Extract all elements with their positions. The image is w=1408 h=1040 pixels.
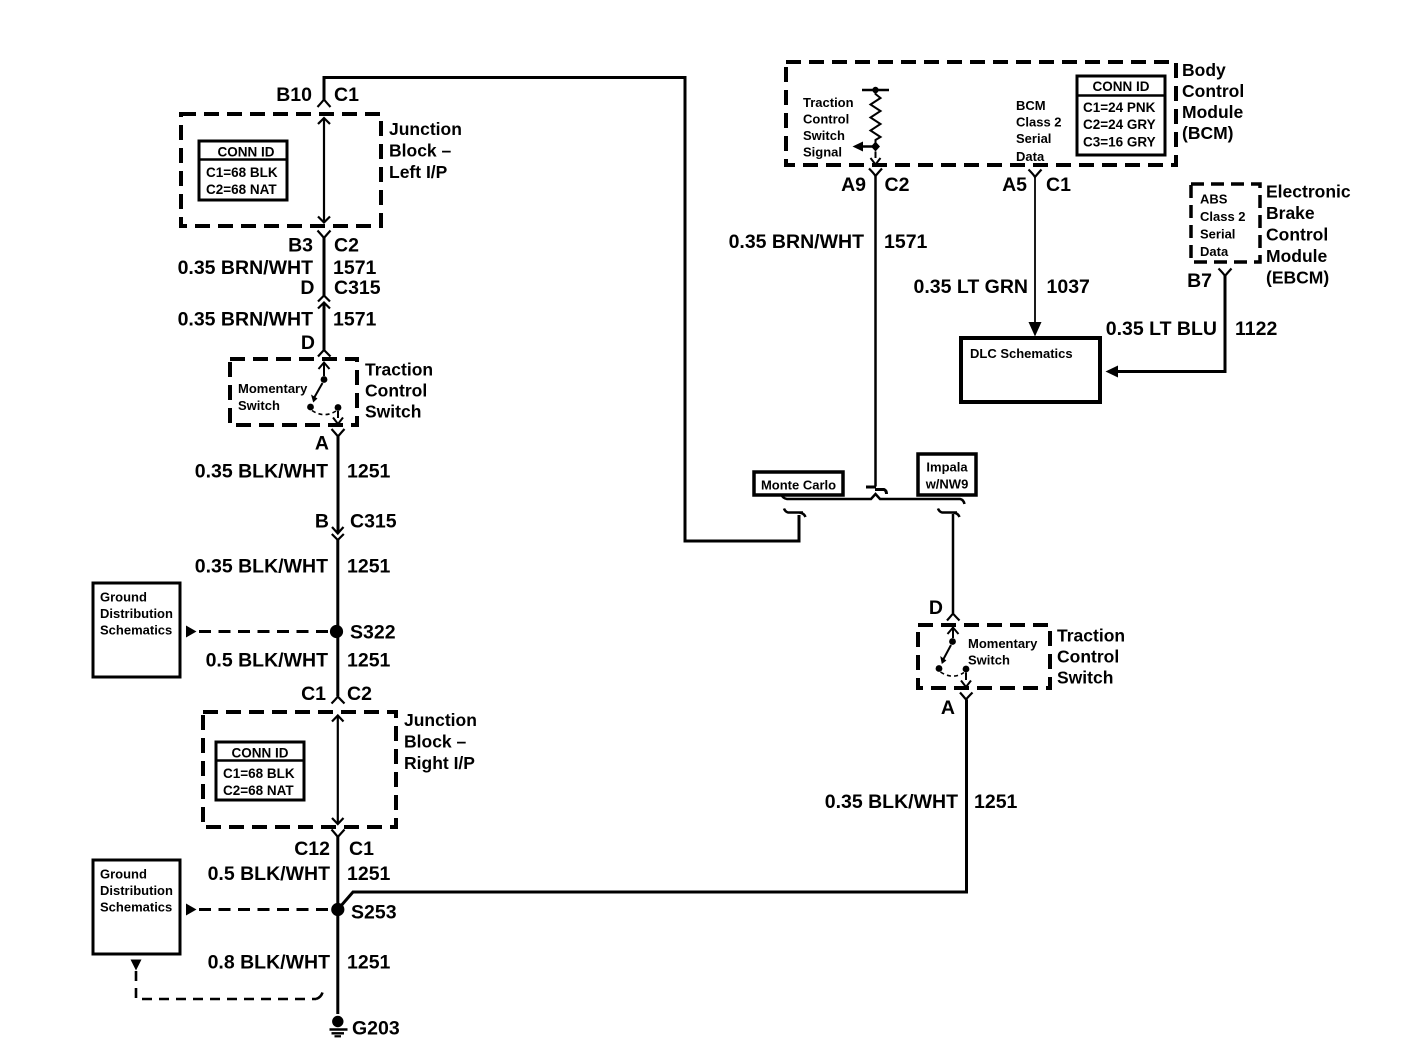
arrow down to BCM edge — [871, 152, 881, 165]
ABS class 2 serial data box — [1191, 184, 1260, 262]
switch lever right — [944, 645, 952, 659]
wire top-left loop from C1 to Monte Carlo branch — [324, 78, 799, 542]
svg-text:1571: 1571 — [884, 231, 928, 253]
splice S253 — [331, 903, 344, 916]
connector C1 fork at junction block right — [332, 697, 345, 704]
CONN ID table BCM — [1077, 76, 1165, 155]
svg-text:C315: C315 — [350, 511, 397, 533]
arrowhead down at bottom inside junction block left — [318, 217, 330, 223]
DLC schematics box — [961, 338, 1100, 402]
svg-text:C2: C2 — [334, 235, 359, 257]
switch pivot dot right — [936, 665, 943, 672]
connector B3 fork — [318, 231, 331, 239]
connector C315 chevron down — [332, 534, 344, 540]
connector A5 fork — [1029, 170, 1042, 178]
svg-text:C2=24 GRY: C2=24 GRY — [1083, 117, 1156, 132]
switch contact dot top left — [321, 376, 328, 383]
svg-text:0.35 BLK/WHT: 0.35 BLK/WHT — [195, 556, 328, 578]
svg-text:Switch: Switch — [803, 128, 845, 143]
svg-text:0.35 BLK/WHT: 0.35 BLK/WHT — [825, 791, 958, 813]
svg-text:C1=68 BLK: C1=68 BLK — [223, 766, 295, 781]
wire inside junction block right — [337, 716, 339, 825]
svg-text:1251: 1251 — [347, 461, 391, 483]
switch pivot dot left — [307, 404, 314, 411]
wire inside junction block left — [323, 118, 325, 223]
svg-text:Control: Control — [1182, 81, 1244, 101]
svg-text:CONN ID: CONN ID — [232, 746, 289, 761]
svg-text:Traction: Traction — [1057, 626, 1125, 646]
svg-text:C1=68 BLK: C1=68 BLK — [206, 165, 278, 180]
svg-text:0.35 BRN/WHT: 0.35 BRN/WHT — [729, 231, 865, 253]
svg-text:C12: C12 — [294, 838, 330, 860]
wire S253 branch to right switch — [338, 700, 967, 910]
svg-text:Brake: Brake — [1266, 203, 1315, 223]
connector D fork right switch — [947, 614, 960, 621]
svg-text:1571: 1571 — [333, 257, 377, 279]
svg-text:S322: S322 — [350, 622, 396, 644]
switch momentary arc right — [941, 672, 965, 676]
svg-text:Distribution: Distribution — [100, 883, 173, 898]
svg-text:Block –: Block – — [404, 732, 467, 752]
svg-text:C1: C1 — [1046, 174, 1071, 196]
switch output arrow right — [961, 673, 971, 688]
connector C12 fork — [332, 830, 345, 838]
svg-text:DLC Schematics: DLC Schematics — [970, 346, 1073, 361]
svg-text:C1: C1 — [334, 84, 359, 106]
svg-text:A: A — [315, 433, 329, 455]
svg-text:0.8 BLK/WHT: 0.8 BLK/WHT — [208, 952, 331, 974]
dashed route ground box 2 to G203 — [136, 971, 323, 999]
svg-text:Class 2: Class 2 — [1016, 115, 1062, 130]
connector B7 fork — [1219, 269, 1232, 277]
svg-text:C2=68 NAT: C2=68 NAT — [223, 783, 294, 798]
svg-text:Control: Control — [365, 381, 427, 401]
arrow below ground box 2 — [131, 960, 142, 971]
connector A fork below right switch — [960, 693, 973, 700]
svg-text:0.5 BLK/WHT: 0.5 BLK/WHT — [208, 863, 331, 885]
svg-text:C315: C315 — [334, 277, 381, 299]
svg-text:(BCM): (BCM) — [1182, 123, 1234, 143]
svg-text:D: D — [929, 597, 943, 619]
svg-text:Right I/P: Right I/P — [404, 753, 475, 773]
svg-text:Momentary: Momentary — [968, 636, 1038, 651]
svg-text:A5: A5 — [1002, 174, 1027, 196]
connector A fork below switch left — [332, 429, 345, 437]
ground G203 symbol — [330, 1016, 348, 1037]
svg-text:Junction: Junction — [404, 710, 477, 730]
wire Impala branch down to switch — [952, 514, 955, 613]
svg-text:Schematics: Schematics — [100, 900, 172, 915]
switch lever left — [314, 383, 323, 398]
connector arrowhead below box top right I/P — [332, 716, 344, 722]
svg-text:Block –: Block – — [389, 141, 452, 161]
CONN ID table left junction block — [199, 141, 287, 200]
wire A5 to DLC schematics — [1034, 177, 1036, 324]
svg-text:Switch: Switch — [1057, 668, 1113, 688]
switch symbol left: input arrow — [319, 363, 330, 377]
svg-text:0.35 BRN/WHT: 0.35 BRN/WHT — [178, 309, 314, 331]
svg-text:A9: A9 — [841, 174, 866, 196]
options split brace — [781, 494, 965, 504]
svg-text:C1: C1 — [301, 683, 326, 705]
svg-text:1122: 1122 — [1235, 318, 1277, 340]
svg-text:0.35 BRN/WHT: 0.35 BRN/WHT — [178, 257, 314, 279]
Impala w/NW9 box — [918, 454, 976, 495]
arrowhead down at bottom inside junction block right — [332, 818, 344, 824]
connector C315 arrowhead down — [332, 527, 344, 534]
svg-text:Data: Data — [1200, 244, 1229, 259]
svg-text:Ground: Ground — [100, 590, 147, 605]
svg-text:S253: S253 — [351, 902, 397, 924]
arrow from ground box 2 — [186, 904, 197, 916]
wire C315 to junction block right — [336, 540, 339, 696]
svg-text:(EBCM): (EBCM) — [1266, 268, 1329, 288]
svg-text:Momentary: Momentary — [238, 381, 308, 396]
connector B10 fork — [318, 100, 331, 108]
svg-text:Control: Control — [1266, 225, 1328, 245]
ground distribution schematics box 2 — [93, 860, 180, 954]
svg-text:C1: C1 — [349, 838, 374, 860]
Impala branch hook — [938, 509, 960, 518]
svg-text:1571: 1571 — [333, 309, 377, 331]
svg-text:Body: Body — [1182, 60, 1226, 80]
svg-text:Serial: Serial — [1016, 131, 1051, 146]
svg-text:Control: Control — [803, 112, 849, 127]
wire A9 down to options split — [874, 176, 877, 487]
svg-text:C3=16 GRY: C3=16 GRY — [1083, 135, 1156, 150]
svg-text:Serial: Serial — [1200, 227, 1235, 242]
switch output dot right — [963, 666, 970, 673]
svg-text:G203: G203 — [352, 1018, 400, 1040]
svg-text:Left I/P: Left I/P — [389, 162, 448, 182]
svg-text:0.35 BLK/WHT: 0.35 BLK/WHT — [195, 461, 328, 483]
wire B7 to DLC schematics — [1118, 276, 1225, 372]
wire C315 to traction control switch — [323, 303, 326, 351]
svg-text:Monte Carlo: Monte Carlo — [761, 478, 836, 493]
svg-text:D: D — [300, 277, 314, 299]
switch momentary arc left — [312, 411, 336, 415]
svg-text:1251: 1251 — [347, 952, 391, 974]
svg-text:C2: C2 — [885, 174, 910, 196]
switch lever arrowhead right — [940, 656, 946, 664]
svg-text:Signal: Signal — [803, 145, 842, 160]
svg-text:1251: 1251 — [347, 863, 391, 885]
svg-text:0.35 LT GRN: 0.35 LT GRN — [914, 276, 1029, 298]
svg-text:1037: 1037 — [1047, 276, 1090, 298]
svg-text:C1=24 PNK: C1=24 PNK — [1083, 100, 1156, 115]
svg-text:Data: Data — [1016, 149, 1045, 164]
svg-text:Distribution: Distribution — [100, 606, 173, 621]
svg-text:B3: B3 — [288, 235, 313, 257]
switch contact dot top right — [949, 638, 956, 645]
connector A9 fork — [869, 169, 882, 177]
junction block left I/P box — [181, 114, 381, 226]
arrowhead into DLC right — [1106, 366, 1119, 378]
svg-text:Ground: Ground — [100, 867, 147, 882]
svg-text:1251: 1251 — [347, 556, 391, 578]
svg-text:ABS: ABS — [1200, 192, 1228, 207]
svg-text:1251: 1251 — [347, 650, 391, 672]
connector C315 chevron up — [318, 296, 330, 302]
junction block right I/P box — [203, 712, 396, 827]
splice S322 — [330, 625, 343, 638]
svg-text:Electronic: Electronic — [1266, 182, 1351, 202]
svg-text:0.35 LT BLU: 0.35 LT BLU — [1106, 318, 1217, 340]
arrow from ground box 1 — [186, 626, 197, 638]
traction control switch right box — [918, 625, 1050, 688]
svg-text:Switch: Switch — [365, 402, 421, 422]
svg-text:B: B — [315, 511, 329, 533]
svg-text:Schematics: Schematics — [100, 623, 172, 638]
svg-text:C2=68 NAT: C2=68 NAT — [206, 182, 277, 197]
signal arrow left — [863, 145, 876, 148]
svg-text:Traction: Traction — [803, 95, 854, 110]
svg-text:Impala: Impala — [926, 460, 968, 475]
svg-text:D: D — [301, 332, 315, 354]
svg-text:C2: C2 — [347, 683, 372, 705]
svg-text:A: A — [941, 697, 955, 719]
switch output dot left — [335, 404, 342, 411]
resistor in BCM — [862, 87, 889, 144]
resistor bottom junction diamond — [871, 142, 880, 152]
Monte Carlo branch hook — [784, 509, 806, 518]
switch output arrow left — [333, 411, 343, 424]
svg-text:B10: B10 — [276, 84, 312, 106]
svg-text:Switch: Switch — [238, 398, 280, 413]
traction control switch left box — [230, 359, 357, 425]
svg-text:CONN ID: CONN ID — [218, 145, 275, 160]
connector C1 arrowhead below box edge — [318, 118, 330, 124]
dashed link to S253 — [199, 908, 329, 911]
wire A to C315 B — [337, 437, 340, 534]
wire B3 to C315 — [323, 238, 326, 296]
arrowhead into DLC — [1029, 322, 1042, 337]
svg-text:Module: Module — [1182, 102, 1244, 122]
ground distribution schematics box 1 — [93, 583, 180, 677]
svg-text:BCM: BCM — [1016, 98, 1046, 113]
connector D fork at switch top — [318, 350, 331, 357]
switch symbol right: input arrow — [948, 628, 959, 639]
Monte Carlo box — [754, 472, 843, 495]
switch lever arrowhead left — [311, 395, 318, 403]
CONN ID table right junction block — [216, 742, 304, 800]
body control module box — [786, 62, 1176, 165]
connector C315 arrowhead up — [318, 303, 330, 309]
svg-text:1251: 1251 — [974, 791, 1018, 813]
svg-text:Traction: Traction — [365, 360, 433, 380]
dashed link to S322 — [199, 630, 329, 633]
svg-text:Control: Control — [1057, 647, 1119, 667]
svg-text:0.5 BLK/WHT: 0.5 BLK/WHT — [206, 650, 329, 672]
svg-text:Class 2: Class 2 — [1200, 209, 1246, 224]
svg-text:Module: Module — [1266, 246, 1328, 266]
svg-text:B7: B7 — [1187, 270, 1212, 292]
wire end T-bar above options split — [866, 487, 887, 494]
svg-text:w/NW9: w/NW9 — [925, 477, 969, 492]
svg-text:Junction: Junction — [389, 119, 462, 139]
svg-text:Switch: Switch — [968, 653, 1010, 668]
svg-text:CONN ID: CONN ID — [1093, 79, 1150, 94]
wire C12 to G203 — [336, 837, 339, 1014]
